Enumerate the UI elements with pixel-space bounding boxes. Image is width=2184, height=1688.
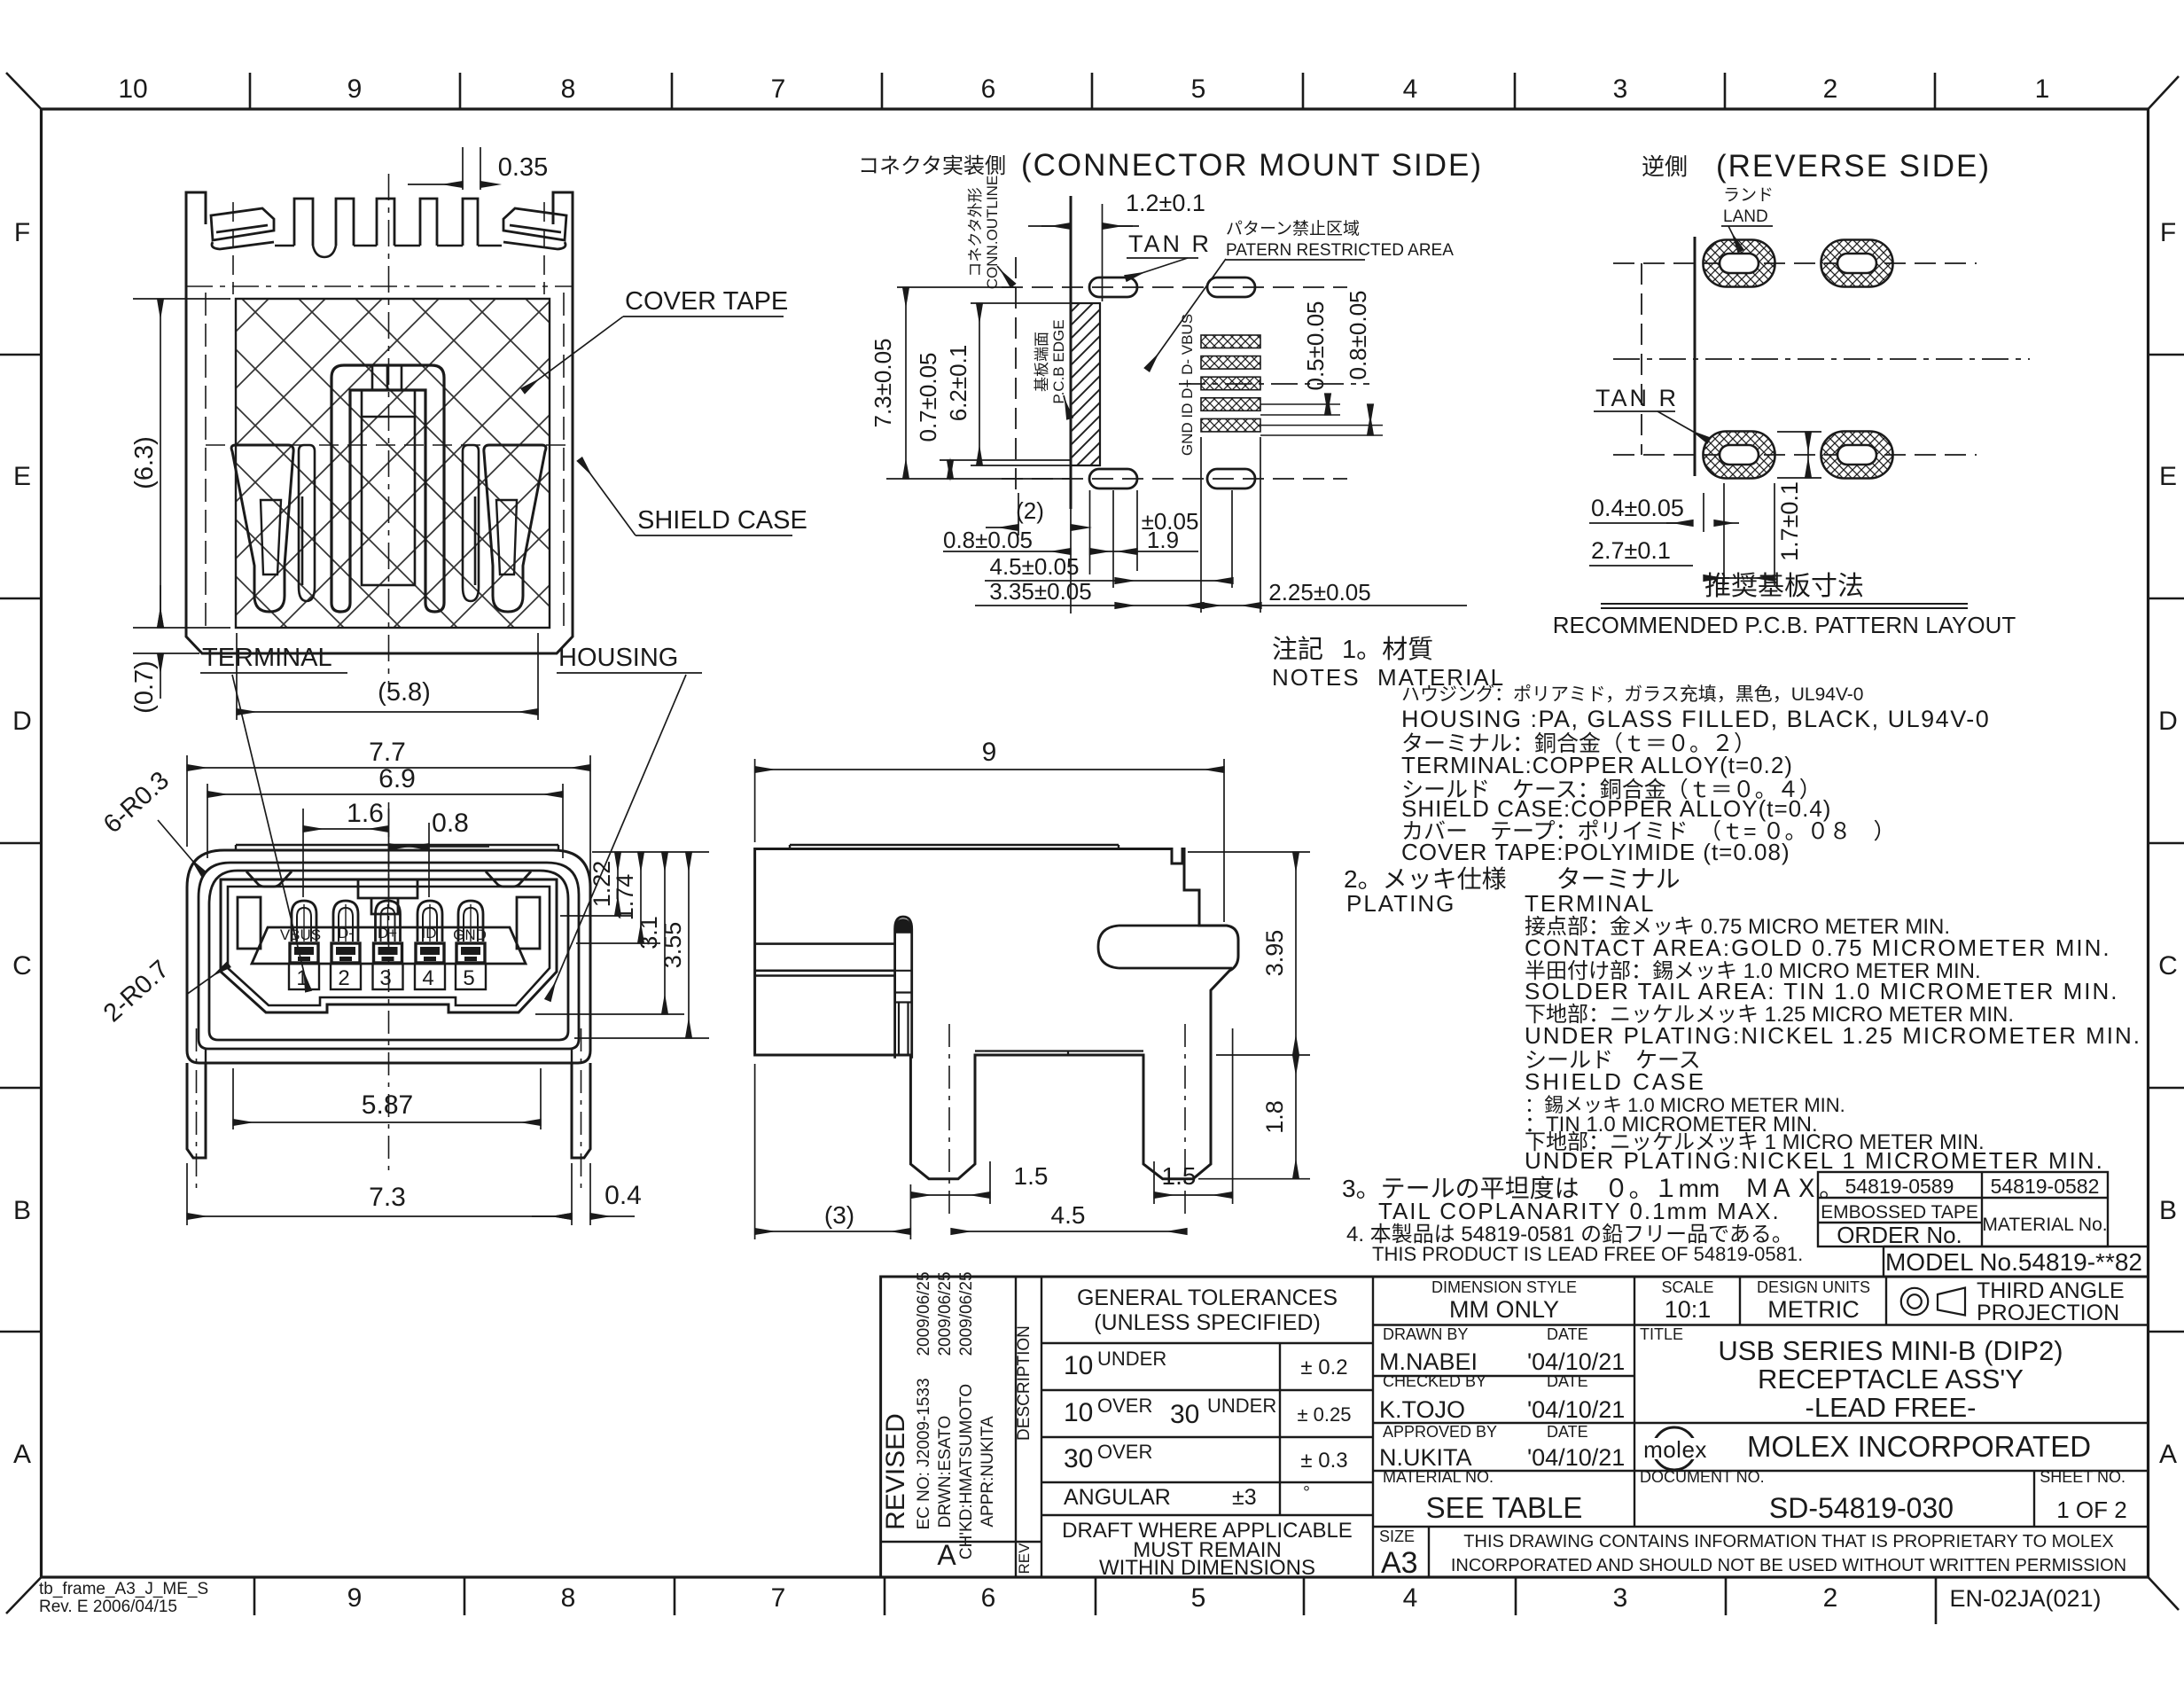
svg-text:5: 5 [1191, 74, 1206, 104]
svg-text:'04/10/21: '04/10/21 [1527, 1348, 1625, 1375]
dims [1589, 432, 1821, 585]
svg-text:DESIGN UNITS: DESIGN UNITS [1757, 1278, 1870, 1296]
svg-text:コネクタ外形: コネクタ外形 [967, 187, 984, 277]
svg-text:NOTES: NOTES [1272, 664, 1361, 691]
svg-text:D: D [2158, 707, 2178, 736]
svg-text:10:1: 10:1 [1665, 1296, 1712, 1323]
dimension 5.87 [233, 1068, 541, 1129]
svg-text:TERMINAL:COPPER ALLOY(t=0.2): TERMINAL:COPPER ALLOY(t=0.2) [1401, 752, 1793, 778]
left pair [231, 445, 293, 612]
svg-text:2-R0.7: 2-R0.7 [98, 955, 175, 1028]
svg-text:1.9: 1.9 [1147, 527, 1179, 553]
svg-text:注記: 注記 [1272, 635, 1323, 664]
svg-text:GND: GND [453, 926, 487, 943]
svg-text:E: E [2159, 462, 2177, 491]
svg-text:基板端面: 基板端面 [1033, 332, 1050, 392]
svg-text:MATERIAL NO.: MATERIAL NO. [1383, 1468, 1494, 1486]
svg-text:D+: D+ [378, 925, 397, 942]
svg-text:9: 9 [982, 738, 997, 767]
svg-text:A3: A3 [1381, 1546, 1418, 1580]
svg-text:COVER TAPE: COVER TAPE [625, 287, 788, 316]
svg-text:2009/06/25: 2009/06/25 [936, 1271, 955, 1356]
svg-text:6-R0.3: 6-R0.3 [98, 766, 175, 839]
svg-text:8: 8 [561, 1583, 576, 1613]
comb base line [275, 246, 502, 257]
svg-text:B: B [13, 1196, 31, 1225]
svg-text:DRWN:ESATO: DRWN:ESATO [936, 1416, 955, 1528]
svg-text:ID: ID [422, 925, 437, 942]
svg-text:SHIELD CASE:COPPER ALLOY(t=0.4: SHIELD CASE:COPPER ALLOY(t=0.4) [1401, 795, 1831, 822]
dimension 0.8 [428, 823, 430, 897]
svg-text:± 0.2: ± 0.2 [1300, 1356, 1347, 1379]
svg-text:INCORPORATED AND SHOULD NOT BE: INCORPORATED AND SHOULD NOT BE USED WITH… [1451, 1556, 2126, 1575]
dimension (6.3) [133, 299, 230, 628]
svg-text:SIZE: SIZE [1379, 1528, 1415, 1545]
connector outline dashed [1002, 257, 1369, 496]
svg-text:(2): (2) [1016, 497, 1044, 524]
dimension 1.8 [1198, 1178, 1310, 1180]
front view dimensions [158, 755, 709, 1225]
svg-text:パターン禁止区域: パターン禁止区域 [1226, 219, 1360, 238]
svg-text:A: A [13, 1440, 31, 1469]
svg-text:TAN R: TAN R [1128, 231, 1212, 257]
svg-text:6: 6 [981, 1583, 996, 1613]
svg-text:DATE: DATE [1547, 1423, 1588, 1441]
svg-text:CHECKED BY: CHECKED BY [1383, 1372, 1486, 1390]
right side dims [535, 852, 709, 1038]
svg-text:TERMINAL: TERMINAL [1525, 890, 1655, 917]
svg-text:6.2±0.1: 6.2±0.1 [945, 345, 971, 422]
svg-text:1。材質: 1。材質 [1342, 635, 1433, 664]
svg-text:EN-02JA(021): EN-02JA(021) [1949, 1585, 2101, 1612]
svg-text:4: 4 [1403, 1583, 1418, 1613]
svg-text:1.5: 1.5 [1014, 1162, 1049, 1190]
svg-text:± 0.3: ± 0.3 [1300, 1449, 1347, 1473]
svg-text:P.C.B EDGE: P.C.B EDGE [1050, 319, 1067, 403]
svg-text:30: 30 [1064, 1444, 1093, 1473]
cover tape hatched area [236, 299, 550, 628]
svg-text:1.5: 1.5 [1162, 1162, 1197, 1190]
svg-text:(0.7): (0.7) [130, 660, 159, 714]
svg-text:0.8±0.05: 0.8±0.05 [1345, 290, 1371, 379]
svg-text:4: 4 [422, 966, 433, 990]
cover tape edge [790, 845, 1119, 849]
right latch wing [503, 208, 566, 249]
dimension 0.35 [463, 147, 480, 190]
right rotated dims [1328, 394, 1370, 435]
svg-text:LAND: LAND [1723, 207, 1768, 226]
svg-text:MATERIAL No.: MATERIAL No. [1982, 1215, 2107, 1235]
svg-text:tb_frame_A3_J_ME_S: tb_frame_A3_J_ME_S [39, 1580, 208, 1598]
svg-text:1.74: 1.74 [612, 874, 638, 921]
svg-text:8: 8 [561, 74, 576, 104]
svg-text:UNDER PLATING:NICKEL 1.25 MICR: UNDER PLATING:NICKEL 1.25 MICROMETER MIN… [1525, 1022, 2141, 1049]
svg-text:REV: REV [1016, 1543, 1033, 1575]
svg-text:C: C [2158, 951, 2178, 981]
svg-text:(UNLESS SPECIFIED): (UNLESS SPECIFIED) [1094, 1310, 1321, 1335]
svg-text:3.55: 3.55 [659, 922, 686, 969]
svg-text:0.5±0.05: 0.5±0.05 [1302, 301, 1329, 390]
svg-text:7.7: 7.7 [369, 738, 406, 767]
svg-text:10: 10 [1064, 1398, 1093, 1427]
svg-text:UNDER PLATING:NICKEL 1 MICROME: UNDER PLATING:NICKEL 1 MICROMETER MIN. [1525, 1147, 2104, 1174]
dimension 1.5 left [911, 1194, 990, 1196]
right ticks [2149, 355, 2184, 1332]
svg-text:3.1: 3.1 [636, 916, 662, 949]
svg-text:2009/06/25: 2009/06/25 [915, 1271, 933, 1356]
svg-text:UNDER: UNDER [1097, 1348, 1166, 1370]
order-number table [1818, 1172, 2149, 1277]
svg-text:3.95: 3.95 [1261, 930, 1288, 977]
svg-text:7.3: 7.3 [369, 1183, 406, 1212]
svg-text:0.8±0.05: 0.8±0.05 [943, 527, 1033, 553]
dimension (3) [755, 1064, 911, 1239]
dimension 7.7 [187, 755, 590, 879]
svg-text:30: 30 [1170, 1400, 1199, 1429]
svg-text:54819-0589: 54819-0589 [1845, 1175, 1954, 1198]
svg-text:F: F [2160, 218, 2176, 247]
svg-text:5.87: 5.87 [362, 1090, 413, 1120]
svg-text:6: 6 [981, 74, 996, 104]
svg-text:-LEAD FREE-: -LEAD FREE- [1806, 1392, 1977, 1423]
main body outline [755, 849, 1238, 1179]
dimension (0.7) [133, 653, 199, 654]
svg-text:SEE TABLE: SEE TABLE [1426, 1491, 1583, 1524]
pcb edge line [1694, 237, 1696, 476]
top ticks [250, 73, 1935, 109]
svg-text:GENERAL TOLERANCES: GENERAL TOLERANCES [1077, 1286, 1338, 1310]
dashed outline [1613, 263, 2030, 455]
thin pad extension lines [1260, 404, 1383, 435]
svg-text:N.UKITA: N.UKITA [1379, 1444, 1472, 1471]
top bumps [246, 871, 531, 887]
svg-text:D-: D- [338, 925, 354, 942]
legs [187, 1063, 590, 1158]
dimension 1.6 [303, 809, 389, 897]
cover tape edge on top [236, 845, 558, 850]
dimension 7.3 and 0.4 [187, 1163, 590, 1225]
svg-text:4.5: 4.5 [1051, 1201, 1086, 1229]
dimension 6.9 [207, 784, 563, 858]
svg-text:molex: molex [1643, 1436, 1707, 1463]
svg-text:A: A [2159, 1440, 2177, 1469]
svg-text:3.35±0.05: 3.35±0.05 [989, 578, 1091, 605]
svg-text:ANGULAR: ANGULAR [1064, 1485, 1171, 1510]
svg-text:推奨基板寸法: 推奨基板寸法 [1704, 572, 1864, 601]
svg-text:D: D [12, 707, 32, 736]
svg-text:2.25±0.05: 2.25±0.05 [1268, 579, 1370, 606]
svg-text:°: ° [1303, 1483, 1310, 1503]
svg-text:'04/10/21: '04/10/21 [1527, 1444, 1625, 1471]
pattern restricted hatched area [1071, 303, 1100, 465]
dimension 4.5 [951, 1231, 1187, 1232]
svg-text:4: 4 [1403, 74, 1418, 104]
svg-text:CONTACT AREA:GOLD 0.75 MICROME: CONTACT AREA:GOLD 0.75 MICROMETER MIN. [1525, 934, 2111, 961]
svg-text:C: C [12, 951, 32, 981]
svg-text:±3: ±3 [1232, 1485, 1257, 1510]
svg-text:0.7±0.05: 0.7±0.05 [915, 352, 941, 442]
svg-text:DOCUMENT NO.: DOCUMENT NO. [1640, 1468, 1765, 1486]
svg-text:7: 7 [771, 1583, 786, 1613]
dimension 9 [755, 759, 1224, 922]
svg-text:THIS PRODUCT IS LEAD FREE OF 5: THIS PRODUCT IS LEAD FREE OF 54819-0581. [1372, 1243, 1803, 1265]
svg-text:THIRD ANGLE: THIRD ANGLE [1977, 1278, 2125, 1303]
latch lobe [1098, 926, 1232, 968]
svg-text:1: 1 [2035, 74, 2050, 104]
svg-text:SHIELD CASE: SHIELD CASE [637, 506, 807, 535]
svg-text:OVER: OVER [1097, 1395, 1152, 1417]
svg-text:DATE: DATE [1547, 1372, 1588, 1390]
right pair [484, 445, 546, 612]
molex logo [1653, 1427, 1696, 1470]
shield inner outline [199, 863, 579, 1049]
svg-text:1.7±0.1: 1.7±0.1 [1776, 481, 1803, 561]
left rotated dims [886, 287, 1071, 479]
svg-text:2: 2 [1823, 74, 1838, 104]
svg-text:0.4±0.05: 0.4±0.05 [1591, 495, 1684, 521]
terminal pads cross hatched [1201, 335, 1260, 432]
bottom ticks [254, 1577, 1936, 1624]
svg-text:9: 9 [347, 74, 363, 104]
svg-text:APPR:NUKITA: APPR:NUKITA [979, 1416, 997, 1528]
svg-text:0.4: 0.4 [604, 1181, 642, 1210]
terminal 1..5 [289, 901, 319, 989]
svg-text:MODEL No.54819-**82: MODEL No.54819-**82 [1885, 1248, 2142, 1276]
shield tabs [294, 199, 478, 246]
svg-text:TERMINAL: TERMINAL [202, 644, 332, 672]
svg-text:SOLDER TAIL AREA: TIN 1.0 MICR: SOLDER TAIL AREA: TIN 1.0 MICROMETER MIN… [1525, 978, 2119, 1004]
svg-text:TITLE: TITLE [1640, 1325, 1683, 1343]
svg-text:VBUS: VBUS [280, 926, 321, 943]
svg-text:COVER TAPE:POLYIMIDE (t=0.08): COVER TAPE:POLYIMIDE (t=0.08) [1401, 839, 1790, 865]
svg-text:UNDER: UNDER [1207, 1395, 1276, 1417]
mini-B opening [221, 871, 557, 1012]
svg-text:WITHIN DIMENSIONS: WITHIN DIMENSIONS [1099, 1556, 1315, 1580]
front plate lines [755, 944, 895, 976]
title block grid [881, 1277, 2149, 1577]
svg-text:7.3±0.05: 7.3±0.05 [870, 338, 896, 427]
svg-text:SCALE: SCALE [1661, 1278, 1713, 1296]
shield outer outline [187, 850, 590, 1063]
center top tab [358, 879, 417, 914]
svg-text:PATERN RESTRICTED AREA: PATERN RESTRICTED AREA [1226, 241, 1454, 260]
dimension 3.95 [1188, 852, 1310, 1055]
svg-text:MM ONLY: MM ONLY [1449, 1296, 1559, 1323]
housing outline [209, 871, 568, 1040]
svg-text:USB SERIES MINI-B (DIP2): USB SERIES MINI-B (DIP2) [1718, 1335, 2063, 1366]
svg-text:5: 5 [1191, 1583, 1206, 1613]
svg-text:3: 3 [1613, 74, 1628, 104]
svg-text:DATE: DATE [1547, 1325, 1588, 1343]
svg-text:THIS DRAWING CONTAINS INFORMAT: THIS DRAWING CONTAINS INFORMATION THAT I… [1463, 1532, 2113, 1551]
svg-text:0.35: 0.35 [498, 153, 548, 182]
svg-text:A: A [937, 1539, 956, 1571]
svg-text:SD-54819-030: SD-54819-030 [1769, 1492, 1954, 1524]
leaders 6-R0.3 and 2-R0.7 [158, 820, 204, 874]
svg-text:'04/10/21: '04/10/21 [1527, 1396, 1625, 1423]
svg-text:SHEET NO.: SHEET NO. [2040, 1468, 2125, 1486]
svg-text:2009/06/25: 2009/06/25 [957, 1271, 976, 1356]
svg-text:2: 2 [1823, 1583, 1838, 1613]
svg-text:CH'KD:HMATSUMOTO: CH'KD:HMATSUMOTO [957, 1384, 976, 1559]
bottom dim chain [943, 437, 1467, 613]
svg-text:6.9: 6.9 [378, 764, 416, 793]
svg-text:MOLEX INCORPORATED: MOLEX INCORPORATED [1747, 1430, 2091, 1463]
svg-text:2: 2 [338, 966, 349, 990]
svg-text:SHIELD CASE: SHIELD CASE [1525, 1068, 1706, 1095]
svg-text:PROJECTION: PROJECTION [1977, 1301, 2119, 1325]
svg-text:ランド: ランド [1723, 186, 1774, 205]
svg-text:0.8: 0.8 [432, 809, 469, 838]
svg-text:PLATING: PLATING [1346, 890, 1455, 917]
notes text block [1272, 635, 2141, 1265]
terminal pin strip [895, 917, 912, 1059]
svg-text:9: 9 [347, 1583, 363, 1613]
svg-text:(5.8): (5.8) [378, 678, 431, 707]
svg-text:10: 10 [1064, 1351, 1093, 1380]
left latch wing [211, 208, 274, 249]
svg-text:1 OF 2: 1 OF 2 [2056, 1497, 2126, 1523]
svg-text:CONN.OUTLINE: CONN.OUTLINE [984, 176, 1001, 289]
svg-text:10: 10 [118, 74, 147, 104]
svg-text:DESCRIPTION: DESCRIPTION [1015, 1325, 1033, 1441]
svg-text:M.NABEI: M.NABEI [1379, 1348, 1478, 1375]
svg-text:REVISED: REVISED [881, 1413, 910, 1530]
title block texts [881, 1271, 2127, 1580]
svg-text:OVER: OVER [1097, 1441, 1152, 1463]
svg-text:1.6: 1.6 [347, 799, 384, 828]
svg-text:± 0.25: ± 0.25 [1297, 1403, 1351, 1426]
svg-text:逆側: 逆側 [1642, 153, 1688, 180]
svg-text:(REVERSE SIDE): (REVERSE SIDE) [1716, 149, 1991, 184]
svg-text:5: 5 [463, 966, 474, 990]
svg-text:1: 1 [296, 966, 308, 990]
svg-text:HOUSING :PA, GLASS FILLED, BLA: HOUSING :PA, GLASS FILLED, BLACK, UL94V-… [1401, 706, 1990, 732]
svg-text:TAIL COPLANARITY 0.1mm MAX.: TAIL COPLANARITY 0.1mm MAX. [1378, 1198, 1781, 1224]
svg-text:DRAWN BY: DRAWN BY [1383, 1325, 1468, 1343]
third angle projection symbol [1901, 1288, 1965, 1316]
dimension (5.8) [237, 633, 538, 720]
left ticks [0, 355, 42, 1332]
svg-text:HOUSING: HOUSING [558, 644, 678, 672]
svg-text:1.2±0.1: 1.2±0.1 [1126, 190, 1205, 216]
land pads: hatched stadiums [1704, 240, 1893, 479]
svg-text:7: 7 [771, 74, 786, 104]
svg-text:RECOMMENDED P.C.B. PATTERN LAY: RECOMMENDED P.C.B. PATTERN LAYOUT [1553, 612, 2016, 638]
side pockets [238, 897, 261, 949]
mount pads (oblong holes) [1089, 277, 1255, 488]
svg-text:ORDER No.: ORDER No. [1837, 1222, 1962, 1248]
svg-text:F: F [14, 218, 30, 247]
svg-text:EC NO: J2009-1533: EC NO: J2009-1533 [915, 1378, 933, 1529]
svg-text:METRIC: METRIC [1767, 1296, 1860, 1323]
svg-text:54819-0582: 54819-0582 [1991, 1175, 2100, 1198]
terminal plate [252, 927, 526, 964]
pcb edge line [1070, 196, 1072, 509]
svg-text:APPROVED BY: APPROVED BY [1383, 1423, 1497, 1441]
svg-text:3: 3 [379, 966, 391, 990]
svg-text:GND ID D+ D- VBUS: GND ID D+ D- VBUS [1179, 314, 1196, 456]
svg-text:TAN R: TAN R [1595, 385, 1679, 411]
svg-text:2.7±0.1: 2.7±0.1 [1591, 537, 1671, 564]
svg-text:K.TOJO: K.TOJO [1379, 1396, 1465, 1423]
svg-text:Rev. E 2006/04/15: Rev. E 2006/04/15 [39, 1598, 177, 1616]
svg-text:4.5±0.05: 4.5±0.05 [989, 553, 1079, 580]
svg-text:(3): (3) [824, 1201, 854, 1229]
svg-text:DIMENSION STYLE: DIMENSION STYLE [1431, 1278, 1577, 1296]
svg-text:(6.3): (6.3) [130, 436, 159, 489]
svg-text:ハウジング：ポリアミド，ガラス充填，黒色，UL94V-0: ハウジング：ポリアミド，ガラス充填，黒色，UL94V-0 [1401, 684, 1863, 705]
svg-text:コネクタ実装側: コネクタ実装側 [858, 154, 1006, 178]
svg-text:E: E [13, 462, 31, 491]
dimension 1.5 right [1154, 1194, 1233, 1196]
top view dimensions [133, 147, 538, 720]
terminal contacts seen through tape [231, 445, 546, 612]
svg-text:1.8: 1.8 [1261, 1100, 1288, 1134]
svg-text:RECEPTACLE ASS'Y: RECEPTACLE ASS'Y [1758, 1364, 2024, 1395]
under-body step line [975, 1051, 1143, 1056]
svg-text:(CONNECTOR MOUNT SIDE): (CONNECTOR MOUNT SIDE) [1021, 148, 1483, 183]
rotated revision column texts [881, 1271, 1033, 1574]
svg-text:B: B [2159, 1196, 2177, 1225]
svg-text:2。メッキ仕様 ターミナル: 2。メッキ仕様 ターミナル [1344, 865, 1681, 893]
housing tongue seen through tape [331, 365, 444, 612]
svg-text:3: 3 [1613, 1583, 1628, 1613]
shield case outline top view [186, 224, 573, 653]
svg-text:EMBOSSED TAPE: EMBOSSED TAPE [1821, 1202, 1978, 1223]
